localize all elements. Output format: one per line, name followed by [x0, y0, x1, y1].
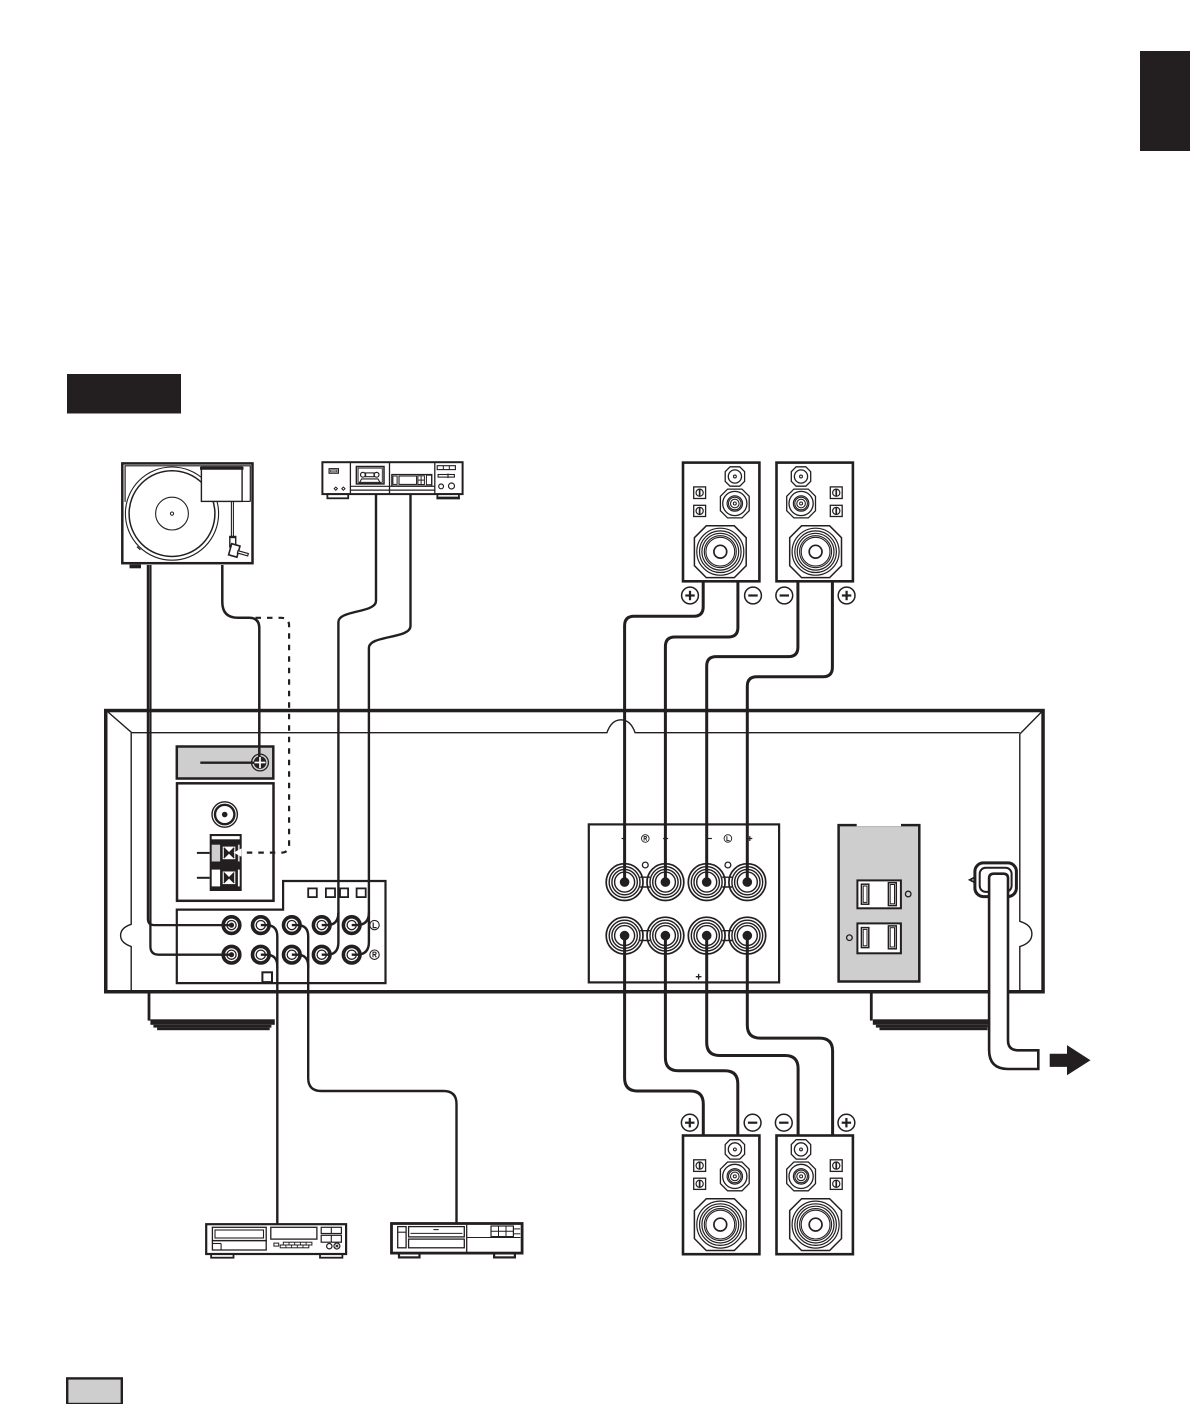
- wire speaker A R+: [625, 936, 704, 1136]
- terminal L- bottom: [688, 917, 725, 954]
- deck slider bar: [438, 475, 454, 478]
- receiver left foot: [148, 993, 151, 1021]
- AM terminal screw 1: [221, 845, 236, 860]
- wire speaker A L-: [707, 936, 798, 1136]
- wire speaker B L-: [707, 581, 798, 882]
- AC outlet 2 screw: [847, 935, 853, 941]
- power cord: [989, 874, 1038, 1069]
- tonearm tube: [230, 501, 232, 536]
- speaker B left (top-left): [683, 463, 759, 582]
- deck display recess: [392, 475, 432, 487]
- feet: [399, 1253, 420, 1257]
- deck top buttons: [437, 466, 455, 470]
- FM antenna block: [177, 747, 273, 779]
- label - R +: [622, 838, 626, 840]
- terminal R+ bottom: [647, 917, 684, 954]
- tuner / second player (bottom-right): [392, 1224, 523, 1258]
- jack TAPE PB L: [313, 917, 330, 934]
- strobe mark: [137, 547, 140, 550]
- AM terminal lead stubs: [197, 852, 210, 854]
- polarity - bottom-left: [744, 1114, 761, 1131]
- wire speaker B R+: [625, 581, 704, 882]
- polarity - top-right: [776, 587, 793, 604]
- wire tape play (cassette to TAPE PB jacks): [322, 494, 376, 955]
- terminal L+ bottom: [729, 917, 766, 954]
- jack CD R: [252, 946, 269, 963]
- AM terminal screw 2: [221, 870, 236, 885]
- wire phono L (turntable to PHONO L jack): [148, 565, 232, 925]
- small button rows: [280, 1242, 312, 1248]
- receiver inner panel right edge with cable notch: [1020, 734, 1032, 991]
- terminal screw holes: [642, 862, 648, 868]
- deck power button: [329, 469, 338, 474]
- label L circled: [370, 920, 379, 929]
- input jack panel: [177, 881, 386, 983]
- receiver right foot: [870, 993, 873, 1021]
- polarity + top-right: [838, 587, 855, 604]
- page side index tab: [1140, 51, 1190, 151]
- cassette base trapezoid: [359, 479, 380, 483]
- cassette hubs: [361, 472, 366, 477]
- polarity + top-left: [682, 587, 699, 604]
- terminal R- top: [606, 864, 643, 901]
- AC outlets block: [839, 825, 920, 982]
- polarity + bottom-left: [681, 1114, 698, 1131]
- FM ground screw: [252, 754, 269, 771]
- feet: [211, 1254, 233, 1258]
- platter: [129, 471, 215, 557]
- record label: [156, 497, 189, 530]
- button grid: [491, 1226, 513, 1237]
- turntable body: [122, 463, 252, 563]
- receiver rear panel: [106, 711, 1043, 1031]
- wire CD (jacks to CD player left): [261, 925, 278, 968]
- label R circled: [370, 950, 379, 959]
- receiver outer case: [106, 711, 1043, 992]
- AM antenna box: [177, 783, 274, 901]
- coax antenna jack: [212, 802, 237, 827]
- turntable lid inner edge: [125, 466, 250, 502]
- terminal R- bottom: [606, 917, 643, 954]
- jack TAPE REC R: [343, 946, 360, 963]
- left panel: [398, 1227, 406, 1248]
- jack TAPE PB R: [313, 946, 330, 963]
- polarity - bottom-right: [775, 1114, 792, 1131]
- page number box: [67, 1378, 122, 1404]
- jack panel switch squares: [308, 888, 317, 897]
- wire tuner/aux (jacks to player right): [292, 925, 308, 968]
- stylus arm: [237, 551, 248, 556]
- polarity + bottom-right: [838, 1114, 855, 1131]
- ground wire plug-in arrow (white): [234, 848, 242, 856]
- speaker terminal block: [589, 824, 779, 982]
- wire speaker B R-: [665, 581, 738, 882]
- AC outlet 1: [857, 880, 901, 908]
- disc drawer: [409, 1227, 465, 1237]
- deck indicator diamonds: [334, 487, 337, 490]
- section heading block: [67, 374, 181, 414]
- AM antenna terminal block: [210, 834, 242, 891]
- receiver bevel top-left: [108, 712, 132, 733]
- tonearm base box: [201, 467, 242, 501]
- power cord strain relief: [970, 863, 1017, 897]
- terminal L- top: [688, 864, 725, 901]
- button group: [321, 1227, 341, 1233]
- terminal R+ top: [647, 864, 684, 901]
- platter outer rim: [125, 467, 218, 560]
- bridge R pair top: [640, 877, 650, 887]
- AC outlet 1 screw: [905, 891, 911, 897]
- wire speaker B L+: [747, 581, 832, 882]
- label + bottom: [696, 974, 702, 980]
- spindle: [170, 512, 173, 515]
- cassette window: [356, 467, 384, 484]
- wire speaker A R-: [665, 936, 737, 1136]
- lower drawer: [409, 1239, 465, 1248]
- bridge R pair bottom: [640, 931, 650, 941]
- CD player (bottom-left): [206, 1224, 346, 1258]
- deck section dividers: [349, 463, 351, 494]
- FM antenna slot: [200, 762, 260, 764]
- bridge L pair bottom: [722, 931, 732, 941]
- cassette deck: [322, 462, 462, 498]
- wire ground alternative (dashed, to AM terminal): [236, 618, 289, 853]
- turntable: [122, 463, 252, 568]
- jack PHONO L: [223, 917, 240, 934]
- jack PHONO R: [223, 946, 240, 963]
- receiver inner panel top edge with cable notch: [132, 720, 1020, 733]
- cassette deck body: [322, 462, 462, 494]
- knobs: [327, 1244, 332, 1249]
- tiny switch: [274, 1243, 279, 1246]
- jack TUNER L: [284, 917, 301, 934]
- receiver bevel top-right: [1020, 712, 1041, 734]
- label - L +: [708, 838, 712, 840]
- mode square: [262, 972, 272, 982]
- cartridge: [229, 544, 240, 558]
- jack TAPE REC L: [343, 917, 360, 934]
- bridge L pair top: [722, 877, 732, 887]
- deck feet: [327, 494, 348, 498]
- turntable foot: [130, 565, 142, 569]
- RCA jack field: [223, 917, 379, 963]
- terminal L+ top: [729, 864, 766, 901]
- receiver inner panel left edge with cable notch: [121, 733, 132, 991]
- speaker A right (bottom-right): [777, 1136, 853, 1255]
- lower band: [212, 1241, 266, 1250]
- AC plug arrow: [1050, 1045, 1091, 1075]
- disc tray: [212, 1227, 266, 1240]
- wire speaker A L+: [747, 936, 832, 1136]
- polarity - top-left: [745, 587, 762, 604]
- jack TUNER R: [284, 946, 301, 963]
- divider: [466, 1225, 468, 1252]
- wire tape rec (cassette to TAPE REC jacks): [352, 494, 411, 955]
- wire turntable ground (to GND screw): [222, 565, 259, 757]
- jack CD L: [252, 917, 269, 934]
- speaker B right (top-right): [777, 463, 853, 582]
- wire phono R (turntable to PHONO R jack): [150, 565, 231, 955]
- display window: [271, 1227, 317, 1239]
- speaker A left (bottom-left): [683, 1136, 759, 1255]
- AC outlet 2: [857, 923, 901, 953]
- deck knobs: [439, 484, 444, 489]
- headshell: [230, 537, 236, 547]
